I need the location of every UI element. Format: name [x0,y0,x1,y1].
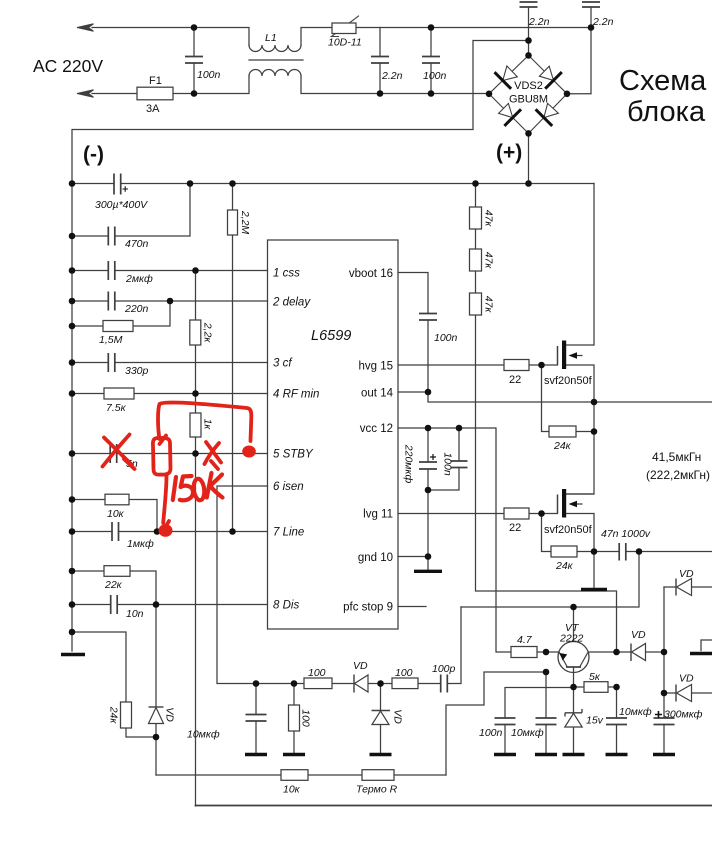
svg-text:2мкф: 2мкф [125,273,153,285]
diode VD emitter row triangle [632,644,646,661]
mosfet Q1 svf20n50f [558,341,595,403]
svg-text:VD: VD [679,673,694,685]
wire gnd row pin10 [398,556,428,558]
svg-text:8 Dis: 8 Dis [273,600,299,612]
svg-text:svf20n50f: svf20n50f [544,375,593,387]
bridge diode D1 bar [495,72,512,89]
diode VD bottom right triangle [677,685,692,702]
svg-text:pfc stop 9: pfc stop 9 [343,602,393,614]
red text 150K stroke 5 [180,476,193,500]
wire lvg row pin11 [398,513,558,515]
capacitor 5n plates [110,444,117,463]
svg-text:330p: 330p [125,365,149,377]
wire RF min row pin4 [72,393,268,395]
resistor 10k left [105,494,129,505]
capacitor 100n vcc plates [451,461,468,468]
capacitor 2.2n top-left plates [520,2,538,7]
wire vboot pin16 bootstrap cap [398,273,428,393]
wire 220mkf leads [427,428,429,570]
resistor 7.5k [104,388,134,399]
capacitor 100n second plates [422,57,440,64]
resistor 47k first [470,207,482,229]
svg-text:47к: 47к [483,296,495,314]
resistor 22 gate Q2 [504,508,529,519]
resistor 24k Q2 [551,546,577,557]
ground vcc filter [414,570,442,573]
capacitor 10mkf3 plates [606,718,627,725]
svg-text:hvg 15: hvg 15 [358,361,393,373]
svg-text:220n: 220n [124,303,149,315]
bridge diode D3 bottom-left triangle [499,103,513,117]
svg-text:VD: VD [679,568,694,580]
resistor 100 first [304,678,332,689]
svg-text:41,5мкГн: 41,5мкГн [652,450,701,464]
bridge diode D4 bottom-right triangle [544,103,559,117]
svg-text:блока: блока [627,96,706,128]
wire vcc row pin12 [398,428,559,652]
wire pfc stop stub pin9 [398,606,426,608]
red blob at 1mkf junction [159,524,173,537]
capacitor 2.2n plates [371,57,389,64]
svg-text:1мкф: 1мкф [127,538,154,550]
ground 10mkf1 [245,753,267,756]
wire transistor base down [573,667,575,687]
capacitor 2mkf plates [108,261,115,280]
svg-text:7.5к: 7.5к [106,402,127,414]
svg-text:22: 22 [509,374,521,386]
svg-text:100n: 100n [423,70,447,82]
resistor 24k Q1 [549,426,576,437]
wire hvg row pin15 [398,364,558,366]
svg-text:1к: 1к [202,419,214,431]
svg-text:10мкф: 10мкф [619,706,652,718]
wire capacitor 100n second leads [430,28,432,94]
wire VD vertical leads [380,684,382,754]
wire top 2.2n cap lead [528,7,530,55]
wire Q2 source to ground [593,552,595,588]
junction dots bridge vertices [525,52,532,59]
wire bottom long line [196,805,712,807]
wire css row pin1 [72,270,268,272]
wire AC bottom arrow [77,90,94,97]
svg-text:24к: 24к [553,440,572,452]
wire 10mkf3 leads [616,687,618,753]
wire 470n row [72,184,190,237]
capacitor 100n AC plates [185,57,203,64]
diode VD top right bar [675,579,677,596]
ground left rail [61,653,85,656]
resistor 47k second [470,249,482,271]
capacitor 1mkf plates [112,522,119,541]
resistor 1,5M [103,321,133,332]
capacitor 220n plates [108,292,115,311]
resistor 22k [104,566,130,577]
wire STBY row pin5 [72,453,268,455]
zener 15v bar with wing [565,709,582,717]
IC U1 L6599 body [268,240,399,629]
capacitor 10mkf2 plates [536,718,557,725]
svg-text:2 delay: 2 delay [272,297,311,309]
svg-text:24к: 24к [555,560,574,572]
svg-text:10мкф: 10мкф [511,727,544,739]
svg-text:100: 100 [308,667,326,679]
diode VD left column triangle [149,708,164,724]
svg-text:4 RF min: 4 RF min [273,389,319,401]
wire Termo R line [156,774,446,776]
svg-text:1,5M: 1,5M [99,334,123,346]
svg-text:3A: 3A [146,103,160,115]
svg-text:5 STBY: 5 STBY [273,449,314,461]
wire right 2.2n cap to bridge [567,7,591,94]
svg-text:22к: 22к [104,579,123,591]
svg-text:100n: 100n [479,727,503,739]
inductor L1 core [249,59,303,61]
wire mosfet Q1 drain from bus [593,184,595,346]
resistor 100 vertical [289,705,300,731]
svg-text:Схема: Схема [619,65,707,97]
svg-text:F1: F1 [149,75,162,87]
red text 150K stroke 1 [173,477,176,500]
svg-text:100n: 100n [442,452,454,476]
svg-text:24к: 24к [108,706,120,725]
wire transistor collector [573,607,575,642]
svg-text:220мкф: 220мкф [403,444,415,484]
junction dots top section [191,24,198,31]
capacitor 220mkf plates [419,462,437,469]
svg-text:AC 220V: AC 220V [33,56,103,76]
bridge diode D2 top-right triangle [539,66,553,80]
ground 15v zener [563,753,585,756]
wire 10mkf2 leads [545,672,547,753]
junction dots left rail [69,233,76,240]
svg-text:vcc 12: vcc 12 [360,423,393,435]
wire right edge ground stub [701,640,712,651]
junction dots bottom row [253,680,260,687]
capacitor 10n plates [111,595,118,614]
red X right [205,442,222,469]
resistor 5k [584,682,608,693]
diode VD left column bar [149,706,164,708]
wire 22k row [72,571,156,605]
svg-text:10D-11: 10D-11 [328,37,362,49]
svg-text:470n: 470n [125,238,149,250]
junction dots left rows [192,267,199,274]
transistor VT 2222 [558,642,589,673]
wire VD right column [663,587,665,753]
inductor L1 bottom winding [249,70,301,76]
capacitor 100n bootstrap plates [419,314,437,321]
red text 150K stroke K [207,473,223,498]
wire delay row pin2 [72,300,268,302]
svg-text:vboot 16: vboot 16 [349,268,393,280]
ground Q2 source [581,588,607,591]
wire 10mkf cap leads [255,684,257,754]
red down stroke to 1mkf junction [163,475,169,531]
svg-text:2.2n: 2.2n [381,70,403,82]
svg-text:1 css: 1 css [273,268,300,280]
ground VD vertical [370,753,392,756]
svg-text:100: 100 [300,709,312,727]
diode VD vertical bottom bar [372,710,391,712]
fuse F1 [137,87,173,100]
svg-text:VD: VD [164,707,176,722]
svg-text:VD: VD [353,660,368,672]
wire isen pin6 to bottom row [217,486,461,684]
junction dots right section [425,389,432,396]
capacitor 300u 400V plates [114,174,121,195]
wire 1,5M row [72,301,170,326]
svg-text:100n: 100n [197,69,221,81]
svg-text:VDS2: VDS2 [514,80,543,92]
plus sign 300mkf [655,711,662,718]
resistor 100 second [392,678,418,689]
svg-text:300µ*400V: 300µ*400V [95,199,148,211]
wire AC top line [92,27,194,29]
svg-text:2,2M: 2,2M [239,210,251,235]
mosfet Q2 svf20n50f [558,489,595,552]
red wire annotation [158,402,251,441]
wire out row pin14 [398,392,712,402]
svg-text:VD: VD [631,629,646,641]
wire capacitor 100n AC leads [193,28,195,94]
inductor L1 top winding [249,45,301,52]
capacitor 330p plates [108,353,115,372]
zener 15v triangle [565,713,582,727]
resistor 10k bottom [281,770,308,781]
red X over 5n [103,435,135,470]
wire mosfet Q2 drain [567,432,595,495]
plus sign 300u400V [123,186,129,192]
svg-text:5к: 5к [589,671,601,683]
svg-text:300мкф: 300мкф [664,709,703,721]
svg-text:47n 1000v: 47n 1000v [601,528,651,540]
varistor 10D-11 box [332,23,356,34]
svg-text:(+): (+) [496,141,522,164]
svg-text:(-): (-) [83,143,104,166]
wire top line to L1 [194,28,249,46]
diode VD bottom right bar [675,685,677,702]
svg-text:100p: 100p [432,663,456,675]
ground 300mkf [653,753,675,756]
wire 24k gate resistor Q2 [542,514,595,552]
ground 100n bottom [494,753,516,756]
svg-text:4.7: 4.7 [517,634,533,646]
svg-text:(222,2мкГн): (222,2мкГн) [646,468,710,482]
svg-text:lvg 11: lvg 11 [363,509,393,521]
bridge diode D2 bar [545,72,562,89]
wire capacitor 2.2n leads [379,28,381,94]
wire bridge plus output [528,133,530,183]
capacitor 100p plates [441,675,448,693]
svg-text:2,2к: 2,2к [202,322,214,344]
wire line B aux supply [461,552,639,608]
resistor 24k left vertical [121,702,132,728]
svg-text:22: 22 [509,522,521,534]
diode VD vertical bottom triangle [372,711,389,725]
bridge diode D1 top-left triangle [503,66,518,81]
ground 100 vertical [283,753,305,756]
junction dots plus bus [69,180,76,187]
resistor 22 gate Q1 [504,360,529,371]
wire cf row pin3 [72,362,268,364]
bridge rectifier diamond [489,55,567,133]
svg-text:10к: 10к [283,784,301,796]
wire half-bridge node [593,402,595,432]
wire 100 vertical resistor leads [293,684,295,754]
resistor 2.2k [190,320,201,345]
svg-text:3 cf: 3 cf [273,358,293,370]
red blob at STBY pin [242,446,256,458]
wire AC top arrow [77,24,94,31]
capacitor 2.2n top-right plates [582,2,600,7]
wire plus bus [72,183,594,185]
diode VD mid-bottom row triangle [355,675,369,692]
red hand-drawn resistor box [153,436,171,475]
ground 10mkf2 [535,753,557,756]
capacitor 300mkf plates [654,718,675,725]
wire AC bottom line [92,76,249,94]
svg-text:gnd 10: gnd 10 [358,552,393,564]
wire 100n bottom leads [505,688,574,754]
bridge diode D3 bar [504,109,521,126]
capacitor 100n bottom plates [495,718,516,725]
plus sign 220mkf [430,454,436,460]
wire bridge minus to left rail [72,41,529,652]
wire Termo line riser to base node [446,672,546,775]
wire Dis row pin8 [72,604,268,606]
svg-text:L6599: L6599 [311,328,351,344]
wire 24k gate resistor Q1 [542,365,595,432]
resistor 4.7 [511,647,537,658]
wire 47n row [594,551,712,553]
wire VD column x156 [155,605,157,776]
varistor diagonal [331,16,359,37]
svg-text:10мкф: 10мкф [187,729,220,741]
wire L1 bottom out to bridge [301,76,489,94]
resistor Termo R [362,770,394,781]
wire resistor chain x195 [195,271,197,807]
resistor 2,2M [228,210,238,235]
svg-text:100n: 100n [434,332,458,344]
wire bottom VD row [664,692,712,694]
svg-text:GBU8M: GBU8M [509,94,548,106]
wire L1 top out to varistor line [301,28,591,46]
svg-text:out 14: out 14 [361,388,394,400]
ground 10mkf3 [606,753,628,756]
svg-text:6 isen: 6 isen [273,481,304,493]
svg-text:100: 100 [395,667,413,679]
diode VD top right triangle [677,579,692,596]
wire 2,2M column [232,184,234,532]
wire emitter row to VD [589,651,665,653]
wire 10k row [72,500,157,532]
resistor 47k third [470,293,482,315]
wire 15v zener leads [573,687,575,753]
diode VD mid-bottom bar [353,675,355,693]
svg-text:7 Line: 7 Line [273,527,304,539]
capacitor 470n plates [108,227,115,246]
wire 100n vcc leads [428,428,459,490]
svg-text:VD: VD [392,709,404,724]
svg-text:47к: 47к [483,252,495,270]
svg-text:47к: 47к [483,210,495,228]
diode VD emitter row bar [630,644,632,662]
svg-text:svf20n50f: svf20n50f [544,524,593,536]
svg-text:2222: 2222 [559,633,584,645]
wire top VD row [664,586,712,588]
svg-text:2.2n: 2.2n [528,16,550,28]
svg-text:10n: 10n [126,608,144,620]
wire 24k branch [72,632,156,737]
red text 150K stroke 0 [193,478,206,501]
wire 5k leads [574,686,617,688]
svg-text:L1: L1 [265,32,277,44]
wire 47k rail [476,184,617,653]
capacitor 47n 1000v plates [619,543,626,561]
resistor 1k [190,413,201,437]
svg-text:Термо R: Термо R [356,784,398,796]
capacitor 10mkf1 plates [246,715,267,722]
svg-text:15v: 15v [586,715,604,727]
bridge diode D4 bar [536,109,553,126]
svg-text:10к: 10к [107,508,125,520]
svg-text:2.2n: 2.2n [592,16,614,28]
ground right edge stub [690,652,712,655]
wire Line row pin7 [72,531,268,533]
